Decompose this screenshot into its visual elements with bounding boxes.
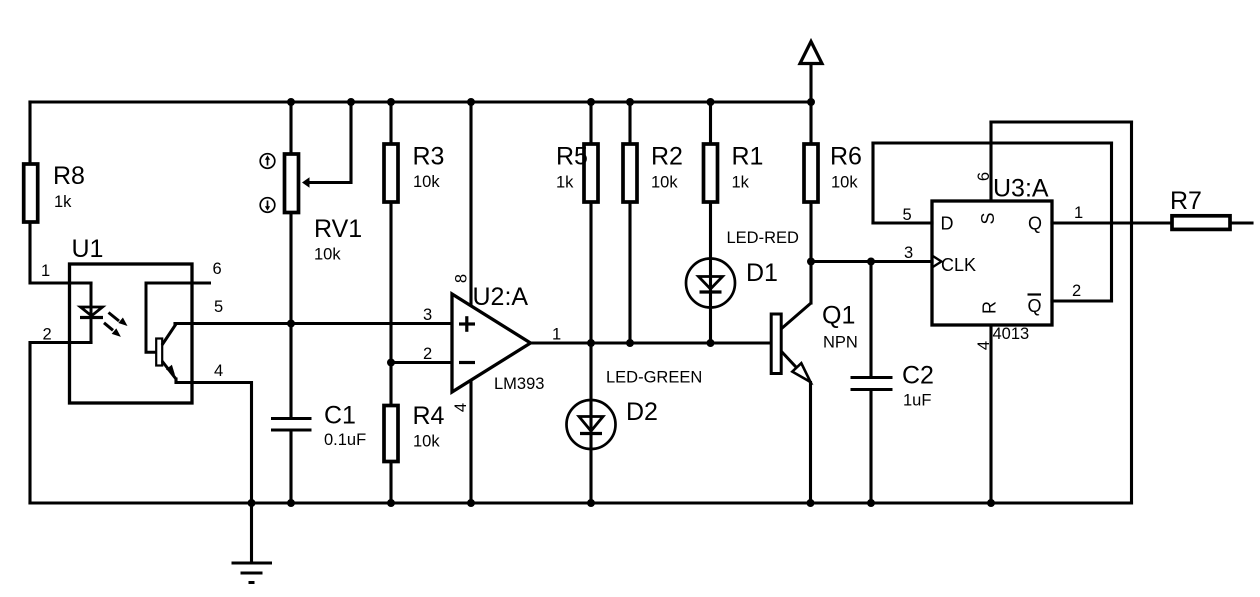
node U3 pin4 ground bbox=[988, 500, 993, 505]
svg-text:R8: R8 bbox=[53, 162, 85, 190]
transistor Q1 bbox=[771, 302, 858, 383]
wire Q1 emitter diagonal bbox=[781, 351, 810, 382]
node R4 ground bbox=[388, 500, 393, 505]
node C1 ground bbox=[288, 500, 293, 505]
node output D1 bbox=[708, 340, 713, 345]
resistor R5 bbox=[556, 143, 598, 203]
node C2 ground bbox=[868, 500, 873, 505]
node RV1 bottom / pin5 line bbox=[288, 321, 293, 326]
wire bottom ground rail bbox=[30, 501, 1132, 504]
Q1 emitter arrow bbox=[792, 363, 810, 382]
svg-text:2: 2 bbox=[1072, 282, 1081, 300]
svg-text:8: 8 bbox=[453, 274, 471, 283]
svg-text:10k: 10k bbox=[413, 433, 440, 451]
node R5 top bbox=[588, 99, 593, 104]
svg-text:1uF: 1uF bbox=[903, 392, 931, 410]
light arrow 2 bbox=[104, 323, 121, 337]
wire U3 S (pin 6) vertical bbox=[989, 122, 992, 201]
RV1 up annotation bbox=[260, 154, 275, 169]
svg-text:1: 1 bbox=[552, 326, 561, 344]
wire R6 bottom lead to CLK node bbox=[809, 203, 812, 262]
node output D2 bbox=[588, 340, 593, 345]
svg-text:R2: R2 bbox=[651, 143, 683, 171]
wire RV1 top lead bbox=[289, 102, 292, 153]
svg-text:R: R bbox=[980, 301, 1000, 314]
svg-text:4: 4 bbox=[975, 341, 993, 350]
svg-text:4: 4 bbox=[452, 403, 470, 412]
wire inverting input stub bbox=[391, 361, 452, 364]
node D2 ground bbox=[588, 500, 593, 505]
flip-flop U3:A bbox=[903, 172, 1084, 350]
svg-text:10k: 10k bbox=[831, 174, 858, 192]
wire U3 D input (pin 5) bbox=[873, 221, 932, 224]
svg-text:2: 2 bbox=[423, 345, 432, 363]
svg-text:4: 4 bbox=[214, 362, 223, 380]
power VCC arrow bbox=[800, 42, 822, 64]
wire R6 top lead bbox=[809, 102, 812, 141]
node CLK C2 bbox=[868, 259, 873, 264]
svg-text:0.1uF: 0.1uF bbox=[324, 431, 366, 449]
op-amp U2:A bbox=[423, 274, 561, 412]
potentiometer RV1 bbox=[260, 154, 362, 264]
ground bbox=[232, 563, 273, 583]
node opamp pin8 top bbox=[468, 99, 473, 104]
wire U1 pin6 base stub bbox=[146, 283, 211, 352]
wire op-amp pin4 supply bbox=[469, 380, 472, 503]
svg-text:3: 3 bbox=[904, 244, 913, 262]
node R1 top bbox=[708, 99, 713, 104]
svg-text:RV1: RV1 bbox=[314, 215, 362, 243]
svg-text:C1: C1 bbox=[324, 402, 356, 430]
node ground stem bbox=[249, 500, 254, 505]
svg-text:C2: C2 bbox=[902, 362, 934, 390]
wire U3 R (pin 4) to ground rail bbox=[989, 325, 992, 503]
plus input marker bbox=[459, 316, 475, 332]
svg-text:10k: 10k bbox=[651, 174, 678, 192]
svg-text:U3:A: U3:A bbox=[993, 175, 1049, 203]
wire U1 internal LED column bbox=[90, 283, 93, 343]
svg-text:1: 1 bbox=[41, 262, 50, 280]
wire RV1 bottom lead down to C1 top plate bbox=[289, 212, 292, 417]
node opamp pin4 ground bbox=[468, 500, 473, 505]
wire C1 bottom plate to ground rail bbox=[289, 431, 292, 503]
node R3/R4 inverting input bbox=[388, 360, 393, 365]
wire R3 top lead bbox=[389, 102, 392, 142]
svg-text:2: 2 bbox=[43, 326, 52, 344]
svg-text:LM393: LM393 bbox=[494, 375, 544, 393]
wire U1 pin2 to left rail down to ground rail bbox=[30, 343, 91, 504]
wire R4 bottom lead to ground rail bbox=[389, 463, 392, 503]
node VCC junction bbox=[808, 99, 813, 104]
wire S loop top horizontal bbox=[991, 120, 1132, 123]
LED D1 bbox=[686, 229, 799, 308]
wire Q1 collector lead bbox=[809, 262, 812, 304]
svg-text:6: 6 bbox=[975, 172, 993, 181]
svg-text:R1: R1 bbox=[732, 143, 764, 171]
node output R2 bbox=[627, 340, 632, 345]
wire D feedback loop left vertical bbox=[871, 143, 874, 223]
wire U1 phototransistor collector diagonal bbox=[162, 324, 176, 345]
svg-text:U1: U1 bbox=[72, 235, 104, 263]
node CLK R6 bbox=[808, 259, 813, 264]
svg-text:R3: R3 bbox=[413, 143, 445, 171]
light arrow 1 bbox=[109, 313, 128, 327]
svg-text:4013: 4013 bbox=[993, 325, 1030, 343]
Q1 base bar bbox=[771, 314, 781, 374]
U1 phototransistor base bar bbox=[156, 339, 162, 366]
svg-text:1: 1 bbox=[1074, 204, 1083, 222]
svg-text:D: D bbox=[941, 214, 954, 234]
wire VCC arrow stem bbox=[809, 53, 812, 102]
svg-text:D1: D1 bbox=[746, 259, 778, 287]
resistor R6 bbox=[804, 143, 862, 203]
wire Q1 collector diagonal bbox=[781, 303, 811, 329]
wire R5 / D2 chain bbox=[589, 102, 592, 503]
svg-text:LED-RED: LED-RED bbox=[727, 229, 800, 247]
wire ground stem bbox=[250, 503, 253, 562]
node RV1 top bbox=[288, 99, 293, 104]
node R3 top bbox=[388, 99, 393, 104]
wire C2 top lead bbox=[869, 262, 872, 377]
capacitor C1 bbox=[271, 402, 366, 450]
wire U1 pin4 emitter path to ground rail bbox=[176, 379, 252, 503]
minus input marker bbox=[459, 361, 475, 364]
resistor R4 bbox=[384, 402, 445, 462]
capacitor C2 bbox=[851, 362, 934, 410]
svg-text:CLK: CLK bbox=[941, 255, 976, 275]
RV1 wiper arrow head bbox=[302, 177, 310, 187]
svg-text:LED-GREEN: LED-GREEN bbox=[606, 369, 702, 387]
resistor R3 bbox=[384, 143, 444, 203]
svg-text:Q: Q bbox=[1028, 214, 1042, 234]
U1 emitter arrow bbox=[166, 365, 175, 375]
wire CLK line to U3 bbox=[811, 260, 932, 263]
wire R1 / D1 chain bbox=[709, 102, 712, 343]
svg-text:1k: 1k bbox=[54, 193, 72, 211]
wire op-amp pin8 supply bbox=[469, 102, 472, 306]
wire D feedback loop right vertical bbox=[1110, 143, 1113, 301]
svg-text:D2: D2 bbox=[626, 398, 658, 426]
wire U3 Q (pin 1) to R7 bbox=[1052, 221, 1171, 224]
wire R8 bottom lead to U1 pin1 bbox=[30, 222, 91, 283]
wire top supply rail bbox=[30, 100, 811, 103]
node Q1 emitter ground bbox=[808, 500, 813, 505]
svg-text:10k: 10k bbox=[413, 173, 440, 191]
wire left rail upper (R8 top lead) bbox=[28, 102, 31, 162]
svg-text:Q1: Q1 bbox=[822, 302, 855, 330]
svg-text:S: S bbox=[978, 212, 998, 224]
resistor R1 bbox=[704, 143, 764, 203]
svg-text:NPN: NPN bbox=[823, 334, 858, 352]
wire C2 bottom lead bbox=[869, 391, 872, 503]
svg-text:5: 5 bbox=[214, 298, 223, 316]
wire R3 bottom to R4 top bbox=[389, 202, 392, 404]
wire Q1 emitter lead to ground rail bbox=[809, 383, 812, 504]
svg-text:U2:A: U2:A bbox=[473, 283, 529, 311]
RV1 down annotation bbox=[260, 198, 275, 213]
svg-text:R5: R5 bbox=[556, 143, 588, 171]
wire U1 pin5 line to op-amp non-inverting input bbox=[175, 322, 452, 325]
LED D2 bbox=[567, 369, 703, 450]
wire U3 Qbar (pin 2) to feedback loop bbox=[1052, 299, 1112, 302]
LED diode symbol inside U1 bbox=[80, 307, 103, 318]
wire S loop right vertical to ground rail bbox=[1130, 122, 1133, 503]
wire U1 phototransistor emitter diagonal bbox=[162, 361, 176, 379]
node wiper top bbox=[348, 99, 353, 104]
resistor R8 bbox=[24, 162, 85, 222]
svg-text:6: 6 bbox=[213, 260, 222, 278]
CLK wedge bbox=[932, 256, 942, 268]
wire op-amp output line to Q1 base bbox=[531, 341, 772, 344]
svg-text:R7: R7 bbox=[1170, 187, 1202, 215]
resistor R7 bbox=[1170, 187, 1230, 229]
wire R2 chain bbox=[628, 102, 631, 343]
svg-text:1k: 1k bbox=[732, 174, 750, 192]
svg-text:3: 3 bbox=[423, 306, 432, 324]
svg-text:10k: 10k bbox=[314, 246, 341, 264]
svg-text:Q: Q bbox=[1028, 296, 1042, 316]
wire RV1 wiper to top rail bbox=[309, 102, 352, 183]
resistor R2 bbox=[623, 143, 683, 203]
optocoupler U1 bbox=[41, 235, 223, 403]
svg-text:5: 5 bbox=[903, 206, 912, 224]
wire R7 right lead bbox=[1232, 221, 1253, 224]
svg-text:R4: R4 bbox=[413, 402, 445, 430]
svg-text:1k: 1k bbox=[556, 174, 574, 192]
wire D feedback loop top horizontal bbox=[873, 141, 1112, 144]
node R2 top bbox=[627, 99, 632, 104]
svg-text:R6: R6 bbox=[830, 143, 862, 171]
